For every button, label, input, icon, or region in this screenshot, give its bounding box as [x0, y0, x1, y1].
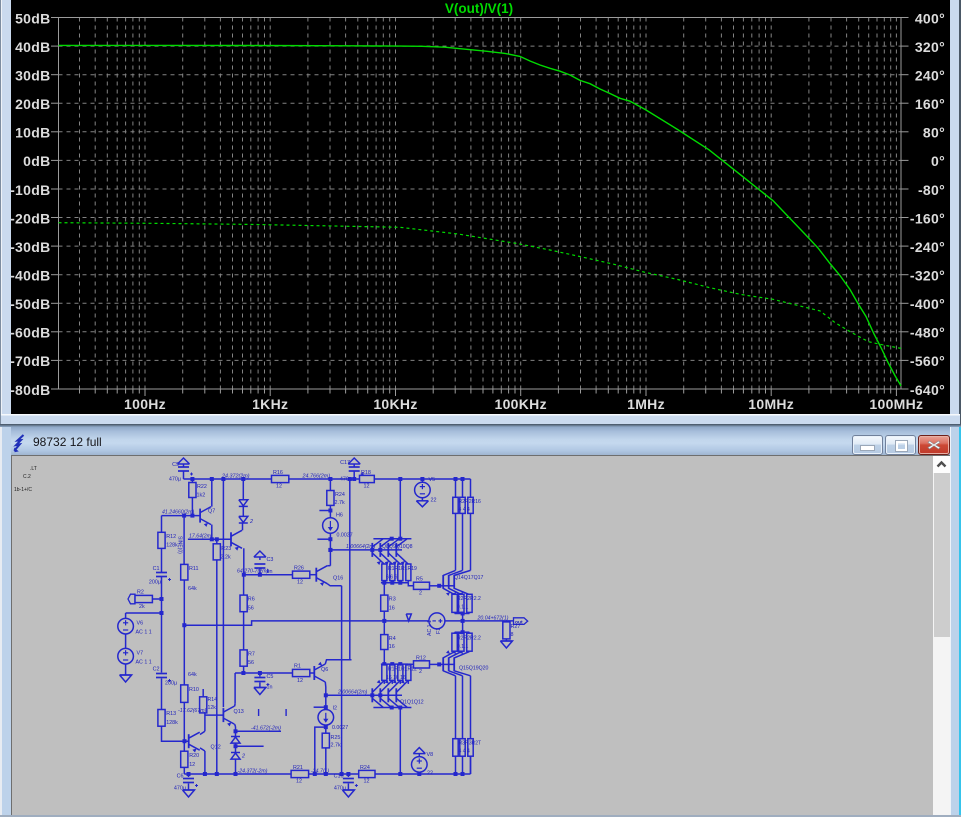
svg-text:64.270-7(2m): 64.270-7(2m) — [237, 569, 268, 575]
svg-text:H6: H6 — [336, 513, 343, 519]
transistor Q7 — [200, 507, 215, 527]
svg-text:R27: R27 — [511, 624, 521, 630]
node label 24.766 — [302, 474, 331, 480]
svg-text:V6: V6 — [137, 621, 144, 627]
resistor R22 — [189, 479, 207, 516]
wire R3 to R4 — [383, 611, 385, 634]
capacitor C16 — [334, 774, 358, 792]
resistor R13 — [158, 710, 178, 727]
wire emitter column to bottom rail — [341, 586, 343, 774]
capacitor C3 — [254, 557, 273, 575]
schematic window left border — [0, 427, 11, 817]
svg-text:80°: 80° — [923, 125, 945, 141]
svg-text:-41.672(-2m): -41.672(-2m) — [251, 725, 281, 731]
transistor Q13 — [223, 706, 243, 726]
wire emitter resistors to output node — [455, 612, 470, 621]
capacitor C9 — [169, 462, 193, 483]
wire node to C2 — [161, 613, 163, 673]
diode D1 — [239, 479, 248, 506]
resistor R14 — [200, 689, 218, 713]
svg-text:50dB: 50dB — [15, 10, 50, 26]
svg-text:R1R1R1R19: R1R1R1R19 — [388, 566, 417, 572]
ground below C16 — [342, 784, 354, 798]
resistor R21 — [291, 765, 309, 785]
wire V6 to node — [126, 611, 164, 615]
wire bottom -22V rail — [184, 756, 470, 774]
wire R23 long column to bottom rail — [216, 560, 218, 774]
current source I2 — [318, 706, 348, 732]
wire C2 to R13 — [161, 679, 163, 710]
svg-text:12: 12 — [364, 779, 370, 785]
minimize button — [852, 435, 883, 455]
ground below V7 — [120, 675, 132, 682]
transistor Q2 — [231, 530, 242, 550]
svg-text:Q8Q9Q10Q8: Q8Q9Q10Q8 — [382, 544, 413, 550]
ground below R27 — [500, 639, 512, 648]
node label -24.766 — [311, 768, 329, 774]
resistor R12 — [158, 532, 178, 548]
svg-text:-10dB: -10dB — [10, 182, 50, 198]
wire lower riser to rail — [399, 708, 401, 775]
svg-text:-70dB: -70dB — [10, 353, 50, 369]
resistor cluster bottom R31 R32 R33 — [453, 739, 481, 774]
wire R10 to R20 — [183, 702, 185, 751]
svg-text:R11: R11 — [189, 566, 199, 572]
svg-text:-17.62(67m): -17.62(67m) — [178, 708, 207, 714]
svg-text:I2: I2 — [333, 706, 338, 712]
svg-text:20.04+672(1): 20.04+672(1) — [477, 615, 509, 621]
svg-text:160°: 160° — [915, 96, 945, 112]
resistor R16 — [272, 470, 289, 490]
wire between D3 D4 — [234, 743, 238, 752]
svg-text:R1: R1 — [294, 664, 301, 670]
resistor R4 — [381, 635, 396, 650]
resistor R23 — [213, 539, 231, 560]
node label -41.67 — [251, 725, 281, 731]
svg-text:-24.7(1): -24.7(1) — [311, 768, 329, 774]
wire node to R12 — [161, 516, 163, 533]
wire node -41.67 — [236, 730, 282, 732]
svg-text:8: 8 — [511, 632, 514, 638]
svg-text:17.64(2m): 17.64(2m) — [189, 533, 213, 539]
svg-text:R2R2R2.2: R2R2R2.2 — [457, 596, 481, 602]
svg-text:100MHz: 100MHz — [869, 396, 923, 412]
resistor R19b — [359, 765, 375, 785]
resistor R27 — [503, 621, 521, 639]
svg-text:56: 56 — [248, 660, 254, 666]
svg-text:40dB: 40dB — [15, 39, 50, 55]
wire R4 to bus — [383, 650, 385, 665]
wire Q13 emitter — [234, 724, 238, 733]
svg-text:100KHz: 100KHz — [495, 396, 547, 412]
wire node 64.270 — [244, 573, 293, 577]
svg-text:0.1.1: 0.1.1 — [457, 644, 468, 650]
svg-text:-80dB: -80dB — [10, 382, 50, 398]
svg-text:V8: V8 — [427, 752, 434, 758]
svg-text:12: 12 — [364, 484, 370, 490]
capacitor C5 — [254, 673, 273, 691]
output transistors Q14 Q17 Q18 — [439, 570, 483, 595]
svg-text:AC 1 1: AC 1 1 — [136, 660, 152, 666]
wire bus to R5 — [408, 583, 413, 586]
svg-text:10dB: 10dB — [15, 125, 50, 141]
resistor R5 — [414, 577, 430, 597]
wires lower cluster emitters — [384, 680, 408, 684]
wire Q12 emitter down — [200, 748, 205, 774]
transistor cluster lower Q mirror — [372, 680, 423, 708]
directive text 3 — [14, 487, 32, 493]
transistor Q12 — [189, 732, 221, 752]
wire R12 to C1 — [161, 548, 163, 572]
svg-text:0dB: 0dB — [23, 153, 50, 169]
wire lower cluster bottom bus — [373, 706, 411, 710]
svg-text:R2R2R2.2: R2R2R2.2 — [457, 636, 481, 642]
svg-text:-320°: -320° — [910, 268, 945, 284]
emitter resistors lower trio — [452, 633, 481, 651]
wire lower emitter resistors to output node — [455, 621, 470, 634]
svg-text:C2: C2 — [153, 667, 160, 673]
schematic window right border — [950, 427, 961, 817]
wire Q2 emitter — [242, 548, 246, 576]
svg-text:Q14Q17Q17: Q14Q17Q17 — [454, 575, 484, 581]
svg-text:-400°: -400° — [910, 296, 945, 312]
wire Q2 emitter node down — [243, 575, 245, 595]
output port out — [514, 618, 528, 626]
svg-text:1MHz: 1MHz — [627, 396, 665, 412]
svg-text:Q1Q1Q12: Q1Q1Q12 — [400, 700, 424, 706]
node label 41.24660 — [162, 510, 195, 516]
wire V6 to V7 — [125, 634, 127, 648]
wire lower resistor bus — [381, 662, 408, 666]
svg-text:-160°: -160° — [910, 210, 945, 226]
wire center row right — [382, 619, 513, 623]
svg-text:2: 2 — [241, 754, 245, 760]
svg-text:Q16: Q16 — [333, 576, 343, 582]
junction dots on top rail — [190, 477, 464, 481]
wire cluster riser to rail — [399, 479, 401, 539]
svg-text:240°: 240° — [915, 68, 945, 84]
svg-text:Q7: Q7 — [208, 509, 215, 515]
stub wire above H6 — [319, 509, 332, 513]
wire R13 to Q12 base — [162, 726, 189, 743]
svg-text:470µ: 470µ — [169, 477, 181, 483]
svg-text:1KHz: 1KHz — [252, 396, 288, 412]
input port IN — [128, 594, 135, 604]
svg-text:R16: R16 — [273, 470, 283, 476]
svg-text:4 4 4: 4 4 4 — [459, 507, 470, 513]
power flag above C9 — [178, 458, 190, 467]
svg-text:R14: R14 — [208, 697, 218, 703]
svg-text:0°: 0° — [931, 153, 945, 169]
svg-text:R2: R2 — [137, 590, 144, 596]
wire R26 to Q16 — [310, 574, 317, 576]
ground below C6 — [183, 784, 195, 798]
svg-text:24.372(2m): 24.372(2m) — [221, 474, 250, 480]
svg-text:R18: R18 — [361, 470, 371, 476]
svg-text:-40dB: -40dB — [10, 268, 50, 284]
current source H6 — [323, 505, 353, 552]
svg-text:C3: C3 — [267, 557, 274, 563]
svg-text:2k: 2k — [139, 604, 145, 610]
net flag A — [406, 614, 411, 621]
separator / schematic window top edge — [0, 424, 961, 427]
svg-text:R22: R22 — [197, 484, 207, 490]
svg-text:R20: R20 — [189, 753, 199, 759]
svg-text:R1R1R1R12: R1R1R1R12 — [388, 667, 417, 673]
svg-text:-50dB: -50dB — [10, 296, 50, 312]
svg-text:R24: R24 — [360, 765, 370, 771]
wire center to R10 — [183, 625, 185, 685]
svg-text:C.2: C.2 — [23, 474, 31, 480]
svg-text:C5: C5 — [267, 674, 274, 680]
svg-text:16: 16 — [389, 644, 395, 650]
svg-text:320°: 320° — [915, 39, 945, 55]
node label 1.00664 — [346, 544, 376, 550]
flag below V5 — [416, 498, 428, 507]
resistor R11 — [181, 564, 199, 592]
svg-text:2: 2 — [419, 669, 422, 675]
svg-text:Q13: Q13 — [234, 709, 244, 715]
resistor R18 — [360, 470, 375, 490]
wire node -17 row — [235, 671, 292, 675]
svg-text:30dB: 30dB — [15, 68, 50, 84]
resistor R20 — [181, 751, 199, 768]
svg-text:V7: V7 — [137, 651, 144, 657]
svg-text:-240°: -240° — [910, 239, 945, 255]
capacitor C17 — [340, 460, 364, 483]
svg-text:100Hz: 100Hz — [124, 396, 166, 412]
svg-text:-20dB: -20dB — [10, 210, 50, 226]
svg-text:-80°: -80° — [918, 182, 945, 198]
power flag above C17 — [348, 458, 360, 467]
svg-text:22: 22 — [431, 498, 437, 504]
svg-text:-24.372(-2m): -24.372(-2m) — [238, 768, 268, 774]
svg-text:2.00664(2m): 2.00664(2m) — [337, 689, 368, 695]
resistor cluster R28 R29 R30 top — [453, 479, 481, 513]
node label -24.372 — [238, 768, 268, 774]
voltage source V8 — [412, 752, 434, 777]
svg-text:6 6 6: 6 6 6 — [386, 575, 397, 581]
svg-text:R12: R12 — [416, 656, 426, 662]
wire cluster top bus — [373, 537, 411, 541]
restore button — [885, 435, 916, 455]
node label 64.270 — [237, 569, 268, 575]
wire Q16 emitter to down-column — [327, 584, 341, 586]
svg-text:SINE(0): SINE(0) — [177, 536, 183, 554]
svg-text:0.0027: 0.0027 — [332, 725, 348, 731]
svg-text:R12: R12 — [166, 534, 176, 540]
svg-text:10KHz: 10KHz — [373, 396, 417, 412]
voltage source V5 — [415, 477, 437, 504]
resistor R1 — [293, 664, 310, 685]
wire node -17.62 — [205, 714, 224, 716]
ground below C5 — [254, 683, 266, 695]
wire R25 to rail — [325, 748, 327, 774]
wire R1 to Q6 — [310, 672, 315, 674]
svg-text:R24: R24 — [335, 492, 345, 498]
svg-text:R10: R10 — [189, 687, 199, 693]
svg-text:12: 12 — [296, 779, 302, 785]
svg-text:200µ: 200µ — [149, 580, 161, 586]
wire R6 to R7 — [243, 612, 245, 650]
LTspice icon — [12, 434, 28, 454]
window title text — [33, 435, 102, 449]
wire R11 to center row — [182, 580, 186, 627]
diode D3 — [231, 731, 240, 743]
node label 17.64 — [189, 533, 213, 539]
svg-text:R6: R6 — [248, 597, 255, 603]
wire Q6 collector down — [324, 682, 327, 733]
svg-text:400°: 400° — [915, 10, 945, 26]
wire D4 to rail — [235, 759, 237, 774]
svg-text:F1: F1 — [436, 628, 442, 634]
transistor Q16 — [316, 566, 343, 586]
resistor R3 — [381, 583, 396, 612]
svg-text:2.2k: 2.2k — [221, 555, 231, 561]
wire cluster bottom bus — [381, 581, 408, 585]
svg-text:R3: R3 — [389, 597, 396, 603]
wave window bottom border — [1, 414, 960, 424]
svg-text:16: 16 — [389, 606, 395, 612]
emitter resistors upper trio — [452, 594, 481, 612]
svg-text:1b-1+/C: 1b-1+/C — [14, 487, 32, 493]
svg-text:-560°: -560° — [910, 353, 945, 369]
wire lower bases bus — [324, 693, 402, 697]
output transistors Q15 Q19 Q20 — [439, 650, 488, 675]
svg-text:56: 56 — [248, 606, 254, 612]
svg-text:0.1.1: 0.1.1 — [457, 605, 468, 611]
svg-text:R4: R4 — [389, 636, 396, 642]
wave window right border — [950, 0, 961, 424]
rotated text beside R12 — [177, 536, 183, 554]
wire rail drop x=349.8 — [349, 479, 351, 660]
junction dots bottom rail — [187, 772, 465, 776]
wires lower collectors to bottom resistors — [456, 676, 471, 739]
resistor R12b lower driver base — [408, 656, 429, 676]
svg-text:C1: C1 — [153, 566, 160, 572]
svg-text:2.7k: 2.7k — [335, 500, 345, 506]
behavioral source F1 — [427, 613, 445, 636]
voltage source V6 — [118, 613, 152, 636]
svg-text:64k: 64k — [188, 586, 197, 592]
node label output — [477, 615, 509, 621]
wire mirror bases bus — [328, 548, 402, 552]
svg-text:V5: V5 — [429, 477, 436, 483]
svg-text:R2R2R16: R2R2R16 — [459, 499, 482, 505]
svg-text:C6: C6 — [177, 774, 184, 780]
flag above V8 — [413, 748, 425, 757]
svg-text:1n: 1n — [267, 569, 273, 575]
node label -17.62 — [178, 708, 207, 714]
wire Q6 emitter jog — [325, 660, 351, 664]
wire node to R11 — [183, 516, 185, 565]
power flag above C3 — [254, 551, 266, 560]
wire Q13 collector — [234, 673, 237, 706]
close button — [918, 435, 950, 455]
svg-text:R5: R5 — [416, 577, 423, 583]
svg-text:128k: 128k — [166, 543, 178, 549]
wire C1 to R2 node — [161, 577, 163, 613]
wires collectors to top resistors — [456, 513, 471, 570]
node label 64k R10 — [188, 672, 197, 678]
svg-text:20dB: 20dB — [15, 96, 50, 112]
wire R20 to rail — [183, 767, 185, 774]
svg-text:24.766(2m): 24.766(2m) — [302, 474, 331, 480]
directive text 2 — [23, 474, 31, 480]
svg-text:12: 12 — [297, 580, 303, 586]
stub wire at H6 — [317, 537, 332, 541]
wave window left border — [0, 0, 11, 424]
svg-text:R21: R21 — [293, 765, 303, 771]
node label 24.372 — [221, 474, 250, 480]
svg-text:64k: 64k — [188, 672, 197, 678]
svg-text:2.7k: 2.7k — [331, 743, 341, 749]
resistor R2 — [135, 590, 152, 611]
capacitor C2 — [153, 667, 178, 687]
svg-text:200µ: 200µ — [165, 681, 177, 687]
voltage source V7 — [118, 648, 152, 665]
svg-text:Q15Q19Q20: Q15Q19Q20 — [459, 666, 489, 672]
wire R2 to node — [152, 597, 163, 601]
tiny net marks — [259, 709, 287, 716]
wire center row left — [184, 621, 429, 625]
svg-text:22: 22 — [427, 771, 433, 777]
svg-text:R3R3R2T: R3R3R2T — [459, 741, 482, 747]
resistor R24 — [327, 479, 345, 506]
svg-text:1n: 1n — [267, 685, 273, 691]
transistor cluster Q8 Q9 Q10 Q11 — [372, 539, 412, 565]
svg-text:-480°: -480° — [910, 325, 945, 341]
wire V7 to ground — [125, 664, 127, 675]
svg-text:2: 2 — [249, 519, 253, 525]
svg-text:12: 12 — [189, 762, 195, 768]
svg-text:C16: C16 — [334, 774, 344, 780]
svg-text:12k: 12k — [208, 705, 217, 711]
wire long column rail to Q13 — [222, 479, 224, 707]
svg-text:128k: 128k — [166, 720, 178, 726]
svg-text:12: 12 — [276, 484, 282, 490]
wire R7 to node row — [243, 666, 245, 673]
resistor R6 — [240, 595, 255, 612]
wire R5 to driver bases — [430, 584, 442, 588]
diode D4 — [231, 753, 245, 760]
svg-text:Q6: Q6 — [321, 667, 328, 673]
svg-text:-60dB: -60dB — [10, 325, 50, 341]
svg-text:4 4 4: 4 4 4 — [459, 749, 470, 755]
wire Q12 collector up — [200, 713, 205, 735]
svg-text:R13: R13 — [166, 711, 176, 717]
svg-text:1k2: 1k2 — [197, 493, 206, 499]
resistor R10 — [181, 685, 199, 703]
stub wire above I2 — [314, 705, 328, 709]
svg-text:.LT: .LT — [30, 466, 37, 472]
node label 2.0066 — [337, 689, 368, 695]
svg-text:2: 2 — [419, 591, 422, 597]
svg-text:R25: R25 — [331, 735, 341, 741]
wire I2 bypass — [315, 725, 328, 774]
resistor R26 — [293, 566, 310, 586]
capacitor C1 — [149, 566, 171, 586]
capacitor C6 — [174, 774, 198, 792]
svg-text:V(out)/V(1): V(out)/V(1) — [445, 1, 513, 16]
svg-text:Q12: Q12 — [211, 745, 221, 751]
svg-text:AC 1 1: AC 1 1 — [427, 620, 433, 636]
resistor cluster lower R1x — [382, 665, 417, 681]
wire Q16 collector — [327, 550, 330, 566]
svg-text:12: 12 — [297, 678, 303, 684]
wire R12b to trio bases — [430, 662, 442, 666]
wire Q7 collector — [211, 479, 213, 507]
